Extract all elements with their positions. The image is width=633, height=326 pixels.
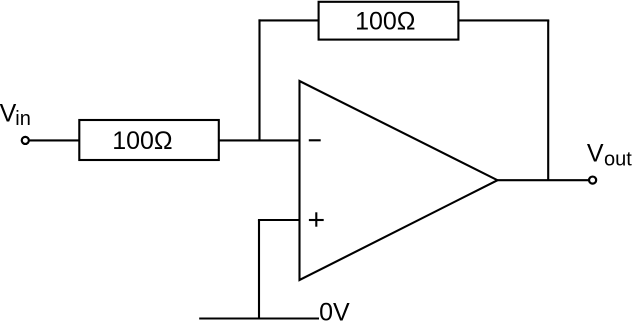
svg-text:out: out xyxy=(604,148,632,170)
wire feedback vertical (node at inverting input) xyxy=(258,19,260,140)
wire output from apex xyxy=(498,179,590,181)
op-amp non-inverting input marker + xyxy=(309,212,324,226)
op-amp U1 xyxy=(300,81,498,280)
output terminal Vout xyxy=(589,177,596,184)
input terminal Vin xyxy=(22,137,29,144)
svg-text:V: V xyxy=(587,139,604,167)
svg-text:0V: 0V xyxy=(319,299,350,326)
wire feedback top horizontal to R2 xyxy=(258,19,318,21)
value label 100Ω (R1) xyxy=(112,127,172,155)
resistor R2 100Ω (feedback) xyxy=(319,2,459,40)
svg-text:100Ω: 100Ω xyxy=(355,8,415,36)
ground 0V xyxy=(199,317,319,319)
wire R1 to inverting input xyxy=(219,139,300,141)
label 0V xyxy=(319,299,350,326)
op-amp inverting input marker - xyxy=(309,139,321,141)
svg-text:V: V xyxy=(0,99,17,127)
wire non-inverting input horizontal xyxy=(258,219,300,221)
value label 100Ω (R2) xyxy=(355,8,415,36)
label Vout xyxy=(587,139,632,170)
wire feedback vertical down to output net xyxy=(547,20,549,180)
svg-text:in: in xyxy=(15,108,31,130)
wire vertical down to ground xyxy=(258,220,260,319)
label Vin xyxy=(0,99,31,130)
svg-text:100Ω: 100Ω xyxy=(112,127,172,155)
wire input terminal to R1 xyxy=(29,139,80,141)
resistor R1 100Ω (input) xyxy=(79,120,219,160)
wire R2 right to feedback corner xyxy=(458,19,549,21)
